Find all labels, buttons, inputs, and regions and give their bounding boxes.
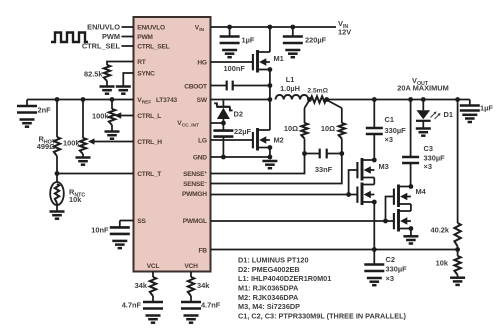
ground below 10k [450,276,465,279]
svg-text:M2: M2 [274,136,284,145]
wire VREF to 2nF [26,100,28,107]
wire M3 upper gate [349,170,358,195]
wire VIN rail [211,26,337,28]
wire SW pin [211,99,270,101]
ground below CTRL_L pot [105,130,120,133]
svg-text:1.0µH: 1.0µH [280,84,300,93]
wire M4 source to ground [410,229,412,237]
svg-text:330µF: 330µF [386,265,408,274]
wire VOUT rail [327,99,458,101]
node M2 source/body tie [268,145,273,150]
svg-text:34k: 34k [135,281,148,290]
node sense right [324,97,329,102]
transistor M4 upper half Si7236DP [394,185,411,208]
node D1 junction [421,97,426,102]
resistor 100k CTRL_L pot [111,100,113,110]
ground below SYNC [116,85,131,88]
svg-text:10nF: 10nF [91,226,109,235]
wire HG gate [211,61,253,63]
svg-text:M3, M4: Si7236DP: M3, M4: Si7236DP [238,302,300,311]
node CTRL_T junction [55,171,60,176]
svg-text:40.2k: 40.2k [431,226,450,235]
svg-text:C2: C2 [386,255,395,264]
capacitor 1uF input [229,27,231,37]
svg-text:EN/UVLO: EN/UVLO [87,23,120,32]
wire LG gate [211,139,253,141]
wire VCH pin [190,272,192,278]
wire SENSE- [211,154,342,184]
svg-text:PWMGL: PWMGL [183,218,207,225]
inductor L1 1.0uH [276,95,309,100]
svg-text:CBOOT: CBOOT [184,83,207,90]
node CBOOT/SW rail junction [268,83,273,88]
node VREF junction CTRL_L pot [110,97,115,102]
resistor 40.2k [454,223,460,246]
svg-text:GND: GND [193,154,207,161]
transistor M2 RJK0346DPA [253,128,270,151]
svg-text:100k: 100k [63,139,80,148]
svg-text:CTRL_T: CTRL_T [137,171,161,178]
capacitor C3 330uF x3 [410,100,412,158]
wire SYNC pin [123,73,133,87]
node VREF junction R_HOT [55,97,60,102]
transistor M3 lower half Si7236DP [357,183,374,206]
LED light emission arrows [431,112,441,119]
wire 82.5k to ground [106,81,108,87]
svg-text:CTRL_L: CTRL_L [137,113,161,120]
svg-text:M1: RJK0365DPA: M1: RJK0365DPA [238,284,299,293]
capacitor 1uF output [469,100,471,106]
capacitor C2 330uF x3 [373,250,375,265]
svg-text:M3: M3 [379,162,389,171]
svg-text:D1: D1 [444,110,453,119]
wire M1 source down to SW [269,70,271,131]
svg-text:FB: FB [199,247,208,254]
svg-text:C1, C2, C3: PTPR330M9L (THREE: C1, C2, C3: PTPR330M9L (THREE IN PARALLE… [238,311,407,320]
svg-text:×3: ×3 [386,274,394,283]
transistor M3 upper half Si7236DP [357,158,374,181]
svg-text:×3: ×3 [385,135,393,144]
node 22uF gnd junction [221,155,226,160]
wire SENSE+ [211,154,305,174]
PWM square wave symbol [51,33,88,43]
node VCC_INT junction [221,121,226,126]
wire 34k to 4.7nF [190,296,192,302]
wire CTRL_SEL stub [122,45,134,47]
ground below D1 [416,127,431,130]
svg-text:LT3743: LT3743 [156,97,178,104]
svg-text:VCL: VCL [147,263,160,270]
node VREF junction CTRL_H pot [81,97,86,102]
wire VREF rail [27,99,134,101]
wire CTRL_H wiper arrow [93,141,134,143]
diode D2 PMEG4002EB schottky [222,100,224,108]
svg-text:CTRL_H: CTRL_H [137,139,162,146]
wire PWMGL [211,220,394,222]
resistor 2.5mohm sense [311,96,327,102]
svg-text:100k: 100k [92,112,109,121]
node SW junction [268,97,273,102]
svg-text:L1: L1 [286,75,295,84]
wire M4 upper gate [386,197,394,222]
svg-text:L1: IHLP4040DZER1R0M01: L1: IHLP4040DZER1R0M01 [238,274,331,283]
wire M3 series link [373,178,375,185]
wire sense right diagonal [327,100,342,108]
svg-text:EN/UVLO: EN/UVLO [137,24,165,31]
resistor 34k VCH [188,277,194,296]
capacitor 10nF soft-start [119,221,121,228]
svg-text:SW: SW [197,97,208,104]
ground below M4 [403,235,418,238]
svg-text:M4: M4 [416,187,427,196]
svg-text:PWMGH: PWMGH [182,191,207,198]
node PWMGH gate junction [346,192,351,197]
svg-text:SENSE+: SENSE+ [183,171,207,178]
svg-text:LG: LG [198,137,207,144]
ground main power [262,160,277,163]
svg-text:M2: RJK0346DPA: M2: RJK0346DPA [238,293,299,302]
svg-text:1µF: 1µF [480,104,493,113]
capacitor 4.7nF VCH [181,301,201,304]
wire FB [211,249,458,251]
svg-text:12V: 12V [338,28,351,37]
svg-text:2nF: 2nF [38,106,52,115]
thermistor R_NTC 10k [56,174,58,183]
node sense filter right [339,151,344,156]
wire sense left diagonal [305,100,310,108]
capacitor 33nF sense filter [305,153,320,155]
node M3 drain junction [372,158,377,163]
wire RT pin [107,62,134,66]
wire M4 series link [410,204,412,211]
svg-text:SYNC: SYNC [137,70,155,77]
node sense filter left [302,151,307,156]
svg-text:10k: 10k [436,258,449,267]
capacitor 2nF [17,105,37,108]
node M4 source tie [409,226,414,231]
resistor 10k [457,250,459,256]
node M4 drain junction [409,184,414,189]
svg-text:10k: 10k [69,195,82,204]
svg-text:PWM: PWM [102,32,120,41]
node M1 source/body tie [268,67,273,72]
node junction 220uF [290,25,295,30]
wire CBOOT [211,85,227,87]
svg-text:PWM: PWM [137,34,153,41]
svg-text:D1: LUMINUS PT120: D1: LUMINUS PT120 [238,256,309,265]
svg-text:4.7nF: 4.7nF [122,301,142,310]
capacitor 220uF input bulk [292,27,294,37]
wire CTRL_T [57,173,134,175]
wire M1 drain to VIN [269,27,271,52]
svg-text:RT: RT [137,59,146,66]
node C1 junction [372,97,377,102]
svg-text:CTRL_SEL: CTRL_SEL [137,43,169,50]
svg-text:10Ω: 10Ω [321,124,335,133]
wire CTRL_L wiper arrow [121,115,134,117]
wire PWMGH [211,194,358,196]
svg-text:HG: HG [197,59,207,66]
svg-text:499Ω: 499Ω [37,142,55,151]
ground below CTRL_H pot [76,156,91,159]
capacitor C1 330uF x3 [373,100,375,129]
svg-text:D2: PMEG4002EB: D2: PMEG4002EB [238,265,300,274]
svg-text:34k: 34k [197,281,210,290]
node M3 source tie [372,200,377,205]
svg-text:220µF: 220µF [305,36,327,45]
wire M2 source to GND [269,148,271,158]
node FB junction [455,247,460,252]
wire GND pin [211,156,270,158]
svg-text:M1: M1 [274,54,284,63]
node junction M1 drain [268,25,273,30]
wire M3 source down to return [373,202,375,250]
wire VCL pin [152,272,154,278]
svg-text:1µF: 1µF [242,36,255,45]
node sense left [307,97,312,102]
LED D1 LUMINUS PT120 [422,100,424,111]
svg-text:82.5k: 82.5k [84,70,103,79]
node PWMGL gate junction [383,219,388,224]
wire VOUT corner to 1uF [458,99,470,101]
node C3 junction [408,97,413,102]
resistor 82.5k [104,65,110,81]
svg-text:100nF: 100nF [224,64,246,73]
svg-text:33nF: 33nF [315,165,333,174]
transistor M4 lower half Si7236DP [394,209,411,232]
node junction 1uF [227,25,232,30]
svg-text:SS: SS [137,218,146,225]
resistor R_HOT 499ohm [56,100,58,138]
svg-text:20A MAXIMUM: 20A MAXIMUM [397,84,448,93]
node VOUT corner junction [455,97,460,102]
svg-text:10Ω: 10Ω [284,124,298,133]
svg-text:22µF: 22µF [234,127,251,136]
svg-text:×3: ×3 [424,162,432,171]
wire SS pin [120,220,134,222]
wire EN/UVLO stub [122,26,134,28]
svg-text:330µF: 330µF [385,126,407,135]
wire VOUT down to divider [457,100,459,224]
resistor 10ohm left [304,108,306,123]
node C2 junction [372,247,377,252]
wire VCC_INT [211,122,225,124]
node M2 gnd junction [268,155,273,160]
capacitor 100nF bootstrap [226,81,228,91]
ground below R_NTC [50,210,65,213]
resistor 100k CTRL_H pot [82,100,84,139]
svg-text:4.7nF: 4.7nF [201,301,221,310]
transistor M1 RJK0365DPA [253,50,270,73]
resistor 34k VCL [150,277,156,296]
svg-text:C3: C3 [424,144,433,153]
svg-text:C1: C1 [385,115,394,124]
capacitor 4.7nF VCL [143,301,163,304]
svg-text:D2: D2 [234,110,243,119]
wire PWM stub [122,36,134,38]
svg-text:2.5mΩ: 2.5mΩ [307,87,328,94]
ground below 82.5k [100,85,115,88]
resistor 10ohm right [341,108,343,123]
capacitor 22uF vcc bypass [222,123,224,131]
svg-text:SENSE−: SENSE− [183,181,207,188]
svg-text:VCH: VCH [184,263,198,270]
wire 34k to 4.7nF [152,296,154,302]
IC U1 LT3743 LED driver controller body [134,17,211,272]
svg-text:330µF: 330µF [424,153,446,162]
